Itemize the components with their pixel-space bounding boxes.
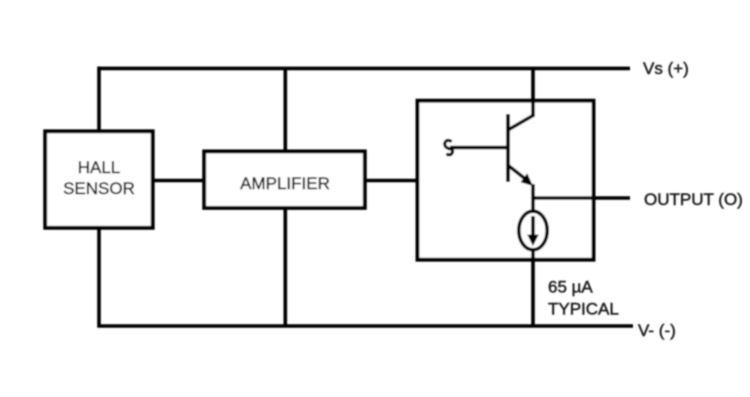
net label Vs (+) [643, 59, 689, 78]
net label V- (-) [638, 321, 676, 340]
block output stage box [418, 101, 594, 260]
svg-text:65 µA: 65 µA [548, 278, 593, 297]
wire V- rail (bottom horizontal) [98, 324, 634, 328]
wire HALL SENSOR to AMPLIFIER [153, 179, 206, 183]
block AMPLIFIER [204, 151, 365, 208]
wire output node to OUTPUT terminal [533, 196, 630, 200]
svg-text:HALL: HALL [78, 158, 121, 177]
svg-text:OUTPUT (O): OUTPUT (O) [644, 190, 743, 209]
wire vertical from Vs rail into output stage (collector feed) [531, 68, 535, 117]
node squiggle (base wire break) [445, 140, 453, 154]
block HALL SENSOR [45, 131, 153, 228]
wire vertical collector feed inside block [531, 99, 535, 117]
value label TYPICAL [548, 300, 619, 319]
wire current source to V- rail [531, 250, 535, 326]
wire emitter to output node [531, 184, 535, 211]
current source I1 (65 uA) [519, 211, 547, 250]
wire vertical from Vs rail to AMPLIFIER top [283, 68, 287, 152]
svg-text:AMPLIFIER: AMPLIFIER [240, 174, 330, 193]
net label OUTPUT (O) [644, 190, 743, 209]
wire left vertical from HALL SENSOR bottom to V- rail [97, 227, 101, 328]
wire vertical from AMPLIFIER bottom to V- rail [283, 207, 287, 326]
wire base lead [450, 146, 508, 150]
transistor Q1 (NPN) [507, 114, 533, 186]
svg-text:SENSOR: SENSOR [63, 179, 135, 198]
wire left vertical from Vs rail to HALL SENSOR top [97, 67, 101, 133]
wire Vs supply rail (top horizontal) [98, 67, 631, 71]
svg-text:V- (-): V- (-) [638, 321, 676, 340]
value label 65 uA [548, 278, 593, 297]
svg-text:TYPICAL: TYPICAL [548, 300, 619, 319]
wire AMPLIFIER to output stage block [364, 179, 419, 183]
svg-text:Vs (+): Vs (+) [643, 59, 689, 78]
